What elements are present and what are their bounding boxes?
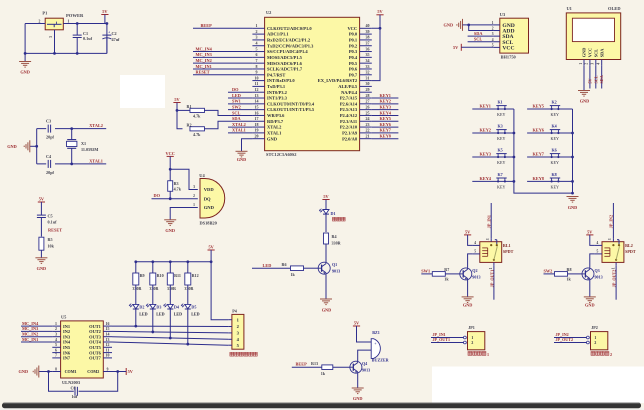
svg-text:MOSI/ADC5/P1.5: MOSI/ADC5/P1.5 <box>267 55 303 60</box>
svg-text:5V: 5V <box>588 78 593 83</box>
U2 pin 34 P0.5 <box>349 58 372 66</box>
svg-text:6: 6 <box>256 52 258 57</box>
U5 pin 1 IN1 <box>52 322 70 329</box>
U5 pin 5 IN5 <box>52 343 71 350</box>
svg-text:EX_LVD/P4.6/RST2: EX_LVD/P4.6/RST2 <box>318 78 358 83</box>
svg-text:GND: GND <box>37 266 47 271</box>
junction at 5V / C2 <box>106 22 109 25</box>
svg-text:1uf: 1uf <box>72 394 78 399</box>
U2 pin 30 ALE/P4.5 <box>338 81 371 89</box>
resistor R7 <box>432 267 449 282</box>
U1 pin 4 SDA <box>597 48 605 66</box>
U5 pin 10 OUT7 <box>89 354 112 361</box>
svg-text:5V: 5V <box>354 320 360 325</box>
svg-text:30: 30 <box>366 81 370 86</box>
svg-text:OUT7: OUT7 <box>89 356 102 361</box>
wire to gnd <box>30 145 37 147</box>
capacitor C3 <box>46 119 55 140</box>
svg-text:R1: R1 <box>187 104 192 109</box>
svg-text:1: 1 <box>55 322 57 326</box>
svg-text:1: 1 <box>193 203 195 207</box>
LED D4 <box>164 304 183 317</box>
svg-text:MC_IN4: MC_IN4 <box>22 321 39 326</box>
svg-text:47uf: 47uf <box>112 37 121 42</box>
svg-text:OUT4: OUT4 <box>89 340 102 345</box>
net KEY4 wire at U2 <box>372 114 399 116</box>
svg-text:XTAL1: XTAL1 <box>267 130 282 135</box>
U2 pin 20 GND <box>252 133 277 141</box>
svg-text:330R: 330R <box>184 286 193 291</box>
net MC_IN4 wire at U5 <box>21 325 52 327</box>
transistor Q2 <box>460 268 481 280</box>
svg-text:6: 6 <box>55 348 57 352</box>
svg-text:K4: K4 <box>552 124 557 129</box>
svg-text:K7: K7 <box>498 172 503 177</box>
LED array top bus wire <box>136 261 211 263</box>
net KEY8 wire at U2 <box>372 138 399 140</box>
svg-text:MC_IN1: MC_IN1 <box>22 337 38 342</box>
relay RL1 body <box>480 240 514 263</box>
net MC_IN3 wire at U5 <box>21 330 52 332</box>
transistor Q3 <box>582 268 603 280</box>
net JP_OUT1 wire <box>431 342 464 344</box>
U2 pin 14 CLKOUT0/INT/T0/P3.4 <box>252 99 314 107</box>
svg-text:1: 1 <box>471 336 473 340</box>
svg-text:MC_IN4: MC_IN4 <box>196 46 213 51</box>
wire U3 SCL <box>468 41 494 43</box>
net SCL wire at U2 <box>228 114 252 116</box>
screenshot bottom border bar <box>2 403 641 408</box>
svg-text:5V: 5V <box>208 244 214 249</box>
U2 pin 24 P2.3/A11 <box>340 116 372 124</box>
svg-text:5: 5 <box>474 250 476 254</box>
svg-text:19: 19 <box>255 128 259 133</box>
net KEY5 wire at U2 <box>372 120 399 122</box>
power 5V of RL1 <box>464 229 471 235</box>
junction 5V pullup branch <box>176 109 179 112</box>
svg-text:INT0/P3.2: INT0/P3.2 <box>267 90 288 95</box>
svg-text:1: 1 <box>611 267 615 269</box>
svg-text:JP2: JP2 <box>591 325 598 330</box>
ground at U2 pin20 <box>236 151 248 157</box>
svg-text:K2: K2 <box>552 100 557 105</box>
svg-text:2: 2 <box>594 341 596 345</box>
ground of xtal circuit <box>24 140 30 152</box>
svg-text:SCL: SCL <box>232 110 240 115</box>
pin 3 of RL2 <box>608 238 613 242</box>
svg-text:KEY6: KEY6 <box>533 127 545 132</box>
svg-text:P0.3: P0.3 <box>349 49 358 54</box>
wire U3 SDA <box>468 35 494 37</box>
sensor module U3 BH1750 body <box>500 12 529 59</box>
svg-text:8: 8 <box>55 367 57 371</box>
net KEY6 wire <box>527 132 572 134</box>
svg-text:GND: GND <box>463 303 473 308</box>
svg-text:KEY8: KEY8 <box>380 133 391 138</box>
svg-text:STC12C5A60S2: STC12C5A60S2 <box>266 152 297 157</box>
svg-text:P2.6/A14: P2.6/A14 <box>340 101 358 106</box>
net XTAL1 wire at U2 <box>228 132 252 134</box>
pushbutton K2 <box>550 106 560 111</box>
svg-text:P2.4/A12: P2.4/A12 <box>340 113 358 118</box>
resistor R12 <box>184 262 198 291</box>
junction left rail bottom <box>24 52 27 55</box>
net SW2 wire at U2 <box>228 109 252 111</box>
svg-text:4: 4 <box>55 338 57 342</box>
svg-text:10: 10 <box>106 354 110 358</box>
U2 pin 10 INT/RxD/P3.0 <box>252 75 295 83</box>
svg-text:GND: GND <box>204 205 215 210</box>
svg-text:GND: GND <box>7 144 17 149</box>
svg-text:OUT2: OUT2 <box>89 329 101 334</box>
wire branch to R1 <box>177 109 183 111</box>
wire 5V bus stem <box>210 250 212 262</box>
U2 pin 7 MISO/ADC6/P1.6 <box>252 58 302 66</box>
svg-text:37: 37 <box>366 41 370 46</box>
U2 pin 32 P0.7 <box>349 70 372 78</box>
svg-text:3: 3 <box>55 333 57 337</box>
ground of RL2 driver <box>584 297 596 303</box>
junction left bus <box>513 180 516 183</box>
junction D2 row <box>134 325 137 328</box>
U5 pin 15 OUT2 <box>89 327 112 334</box>
svg-text:BH1750: BH1750 <box>501 55 517 60</box>
svg-text:VCC: VCC <box>588 48 593 57</box>
U2 pin 23 P2.2/A10 <box>340 122 372 130</box>
pushbutton K4 <box>550 130 560 134</box>
U2 pin 9 P4.7/RST <box>252 70 285 78</box>
U5 pin 4 IN4 <box>52 338 71 345</box>
svg-text:KEY1: KEY1 <box>380 93 391 98</box>
svg-text:3: 3 <box>608 238 612 240</box>
wire R1 to SCL pin <box>205 110 229 115</box>
svg-text:P2.2/A10: P2.2/A10 <box>340 125 358 130</box>
U5 pin 13 OUT4 <box>89 338 112 345</box>
connector JP2 <box>587 325 608 350</box>
left vertical wire of xtal <box>36 129 38 164</box>
power 5V at U3 VCC <box>453 44 461 51</box>
svg-text:2: 2 <box>39 19 41 23</box>
wire Q1 emitter to ground <box>325 274 327 299</box>
svg-text:K3: K3 <box>498 124 503 129</box>
svg-text:XTAL2: XTAL2 <box>232 122 246 127</box>
svg-text:VDD: VDD <box>204 187 215 192</box>
wire D3 to OUT row <box>152 309 154 332</box>
net MC_IN3 wire at U2 <box>193 56 252 58</box>
wire P1 pin2 to left rail <box>25 23 45 25</box>
ground of buzzer driver <box>352 388 364 394</box>
svg-text:MC_IN1: MC_IN1 <box>196 64 212 69</box>
svg-text:BUZZER: BUZZER <box>372 358 389 363</box>
resistor R10 <box>149 262 163 291</box>
svg-text:GND: GND <box>580 99 590 104</box>
svg-text:OLED: OLED <box>608 6 620 11</box>
svg-text:KEY: KEY <box>497 184 505 189</box>
wire COM2 to 5V bar <box>118 371 127 373</box>
U3 pin 4 SCL <box>492 38 514 46</box>
wire R6 to base <box>304 267 319 269</box>
svg-text:P2.5/A13: P2.5/A13 <box>340 107 358 112</box>
svg-text:RESET: RESET <box>196 70 210 75</box>
svg-text:MC_IN2: MC_IN2 <box>22 332 38 337</box>
U4 pin 3 VDD <box>193 185 214 192</box>
svg-text:D5: D5 <box>191 305 196 310</box>
U2 pin 3 RxD2/ECI/ADC2/P1.2 <box>252 35 310 43</box>
net KEY2 wire <box>472 132 514 134</box>
svg-text:P1: P1 <box>42 11 47 16</box>
wire OLED SCL down <box>595 65 597 88</box>
svg-text:DO: DO <box>232 87 239 92</box>
svg-text:4: 4 <box>256 41 258 46</box>
svg-text:KEY: KEY <box>551 160 559 165</box>
svg-text:18: 18 <box>255 122 259 127</box>
net KEY1 wire at U2 <box>372 97 399 99</box>
wire OLED GND down <box>583 65 585 90</box>
wire R8 to base <box>568 273 583 275</box>
transistor Q4 <box>350 361 370 373</box>
svg-text:4: 4 <box>492 38 494 42</box>
junction at pin40 <box>379 27 382 30</box>
svg-text:23: 23 <box>366 122 370 127</box>
power 5V of reset circuit <box>38 196 45 202</box>
svg-text:GND: GND <box>444 23 454 28</box>
svg-text:CLKOUT0/INT/T0/P3.4: CLKOUT0/INT/T0/P3.4 <box>267 101 315 106</box>
resistor R9 <box>132 262 144 291</box>
svg-text:IN7: IN7 <box>63 356 71 361</box>
svg-text:R10: R10 <box>157 273 164 278</box>
svg-text:CLKOUT1/INT/T1/P3.5: CLKOUT1/INT/T1/P3.5 <box>267 107 315 112</box>
svg-text:4: 4 <box>474 241 476 245</box>
power 5V of LED array <box>208 244 215 250</box>
svg-text:P0.2: P0.2 <box>349 43 358 48</box>
svg-text:RxD2/ECI/ADC2/P1.2: RxD2/ECI/ADC2/P1.2 <box>267 38 311 43</box>
svg-text:D2: D2 <box>139 305 144 310</box>
svg-text:5V: 5V <box>323 194 329 199</box>
svg-text:WR/P3.6: WR/P3.6 <box>267 113 285 118</box>
svg-text:DO: DO <box>154 193 161 198</box>
power 5V for I2C pullups <box>173 97 180 103</box>
svg-text:17: 17 <box>255 116 259 121</box>
svg-text:ADC1/P1.1: ADC1/P1.1 <box>267 32 289 37</box>
label stepper motor interface <box>230 352 234 356</box>
ground of key matrix <box>567 197 579 203</box>
wire C6 to 5V side <box>79 372 118 392</box>
capacitor C1 <box>73 24 93 54</box>
net BEEP wire at U2 pin1 <box>193 27 252 29</box>
wire D2 to OUT row <box>135 309 137 326</box>
net JP_IN1 wire <box>490 203 492 238</box>
junction right bus <box>571 180 574 183</box>
svg-text:14: 14 <box>106 333 110 337</box>
wire U3 GND <box>463 24 494 26</box>
resistor R5 <box>39 237 55 250</box>
svg-text:OUT3: OUT3 <box>89 334 102 339</box>
U3 pin 3 SDA <box>492 32 514 40</box>
wire ADD tied to GND <box>469 25 494 31</box>
svg-text:R4: R4 <box>332 234 337 239</box>
svg-text:GND: GND <box>165 228 175 233</box>
net DO wire <box>152 198 198 200</box>
ground at U3 <box>457 19 463 31</box>
junction bus at R9 <box>134 260 137 263</box>
svg-text:330R: 330R <box>132 286 141 291</box>
U2 pin 36 P0.3 <box>349 46 372 54</box>
svg-text:11: 11 <box>255 81 259 86</box>
svg-text:1: 1 <box>489 267 493 269</box>
svg-text:33: 33 <box>366 64 370 69</box>
svg-text:IN2: IN2 <box>63 329 70 334</box>
junction COM1 branch <box>47 370 50 373</box>
svg-text:38: 38 <box>366 35 370 40</box>
svg-text:LED: LED <box>232 93 241 98</box>
svg-text:JP_OUT2: JP_OUT2 <box>556 337 574 342</box>
U5 pin 8 COM1 <box>52 367 76 374</box>
junction bus at 5V <box>210 260 213 263</box>
svg-text:POWER: POWER <box>66 13 84 18</box>
relay RL2 body <box>602 240 636 263</box>
svg-text:2: 2 <box>610 352 612 357</box>
svg-text:GND: GND <box>19 369 29 374</box>
svg-text:P4: P4 <box>232 308 237 313</box>
svg-text:DQ: DQ <box>204 196 211 201</box>
wire R11 to D4 <box>169 285 171 304</box>
wire R13 to Q4 base <box>333 366 350 368</box>
svg-text:LED: LED <box>139 311 147 316</box>
svg-text:P2.3/A11: P2.3/A11 <box>340 119 358 124</box>
junction D4 row <box>169 337 172 340</box>
junction at P1 pin1 / C1 <box>76 22 79 25</box>
net MC_IN2 wire at U2 <box>193 62 252 64</box>
svg-text:U3: U3 <box>500 12 506 17</box>
net JP_IN2 wire <box>554 337 587 339</box>
ground below OLED <box>578 91 590 97</box>
wire R5 to ground <box>40 250 42 258</box>
svg-text:CLKOUT2/ADC0/P1.0: CLKOUT2/ADC0/P1.0 <box>267 26 312 31</box>
wire R3 top <box>169 169 171 181</box>
pushbutton K7 <box>496 178 506 182</box>
U5 pin 9 COM2 <box>87 367 117 374</box>
junction X1 bottom <box>70 163 73 166</box>
svg-text:RD/P3.7: RD/P3.7 <box>267 119 284 124</box>
svg-text:C6: C6 <box>71 385 76 390</box>
svg-text:MC_IN2: MC_IN2 <box>196 58 212 63</box>
net KEY3 wire at U2 <box>372 109 399 111</box>
svg-text:IN5: IN5 <box>63 345 71 350</box>
svg-text:COM1: COM1 <box>65 369 77 374</box>
U2 pin 2 ADC1/P1.1 <box>252 29 289 37</box>
svg-text:5V: 5V <box>453 45 459 50</box>
svg-text:KEY4: KEY4 <box>480 176 492 181</box>
resistor R6 <box>282 262 304 277</box>
svg-text:U1: U1 <box>567 6 572 11</box>
svg-text:SCL: SCL <box>474 37 482 42</box>
power VCC of DS18B20 <box>166 151 175 157</box>
svg-text:SS/CCP1/ADC4/P1.4: SS/CCP1/ADC4/P1.4 <box>267 49 308 54</box>
svg-text:R9: R9 <box>140 273 145 278</box>
net XTAL2 wire at U2 <box>228 126 252 128</box>
svg-text:4.7k: 4.7k <box>174 187 182 192</box>
svg-text:5: 5 <box>597 250 599 254</box>
svg-text:BEEP: BEEP <box>201 23 213 28</box>
svg-text:1: 1 <box>68 19 70 23</box>
svg-text:IN1: IN1 <box>63 324 70 329</box>
svg-text:3: 3 <box>49 36 53 38</box>
left rail wire down <box>24 24 26 54</box>
U5 pin 3 IN3 <box>52 333 71 340</box>
svg-text:32: 32 <box>366 70 370 75</box>
transistor Q1 <box>318 262 340 274</box>
svg-text:KEY5: KEY5 <box>380 116 391 121</box>
svg-text:5V: 5V <box>465 229 471 234</box>
wire D4 to OUT row <box>169 309 171 338</box>
svg-text:INT/RxD/P3.0: INT/RxD/P3.0 <box>267 78 295 83</box>
net KEY5 wire <box>527 108 572 110</box>
wire pin5 to collector <box>590 254 595 268</box>
svg-text:JP_OUT1: JP_OUT1 <box>489 270 494 288</box>
wire VCC to VDD pin <box>170 169 198 189</box>
wire 5V to pin4 <box>590 235 595 246</box>
svg-text:2: 2 <box>492 27 494 31</box>
svg-text:SPDT: SPDT <box>503 249 514 254</box>
resistor R8 <box>555 267 572 282</box>
svg-text:TxD/P3.1: TxD/P3.1 <box>267 84 286 89</box>
svg-text:KEY7: KEY7 <box>380 128 392 133</box>
svg-text:11.0592M: 11.0592M <box>81 147 98 152</box>
svg-text:RL1: RL1 <box>503 243 511 248</box>
net MC_IN1 wire at U5 <box>21 341 52 343</box>
svg-text:SW2: SW2 <box>232 104 241 109</box>
svg-text:KEY8: KEY8 <box>533 176 544 181</box>
diode D1 fill light LED <box>319 209 345 221</box>
svg-text:U4: U4 <box>199 173 205 178</box>
connector P1 <box>42 11 63 30</box>
net RESET wire at U2 pin9 <box>193 74 252 76</box>
svg-text:KEY4: KEY4 <box>380 110 392 115</box>
wire OUT2 to P4 <box>112 331 228 333</box>
net KEY3 wire <box>472 156 514 158</box>
U1 pin 1 GND <box>579 48 587 66</box>
svg-text:SCL: SCL <box>593 75 598 83</box>
svg-text:C2: C2 <box>112 31 117 36</box>
U2 pin 27 P2.6/A14 <box>340 99 372 107</box>
svg-text:P2.7/A15: P2.7/A15 <box>340 96 358 101</box>
net SW1 wire at U2 <box>228 103 252 105</box>
wire R3 to DQ <box>169 191 171 198</box>
U3 pin 2 ADD <box>492 27 515 35</box>
svg-text:P0.6: P0.6 <box>349 67 358 72</box>
U2 pin 5 SS/CCP1/ADC4/P1.4 <box>252 46 308 54</box>
svg-text:3: 3 <box>256 35 258 40</box>
svg-text:16: 16 <box>106 322 110 326</box>
pin 4 of RL1 <box>472 241 479 245</box>
svg-text:C3: C3 <box>46 119 51 124</box>
svg-text:XTAL2: XTAL2 <box>89 123 103 128</box>
net JP_OUT2 wire <box>554 342 587 344</box>
junction right bus <box>571 132 574 135</box>
U2 pin 38 P0.1 <box>349 35 372 43</box>
svg-text:R8: R8 <box>567 267 572 272</box>
wire U3 VCC <box>461 46 493 48</box>
net KEY1 wire <box>472 108 514 110</box>
svg-text:GND: GND <box>237 157 247 162</box>
svg-text:9013: 9013 <box>332 268 340 273</box>
pushbutton K1 <box>496 106 506 111</box>
junction VCC branch <box>169 168 172 171</box>
pin 1 of RL2 <box>611 262 616 269</box>
svg-text:36: 36 <box>366 46 370 51</box>
svg-text:20pf: 20pf <box>46 170 55 175</box>
junction bus at R11 <box>169 260 172 263</box>
